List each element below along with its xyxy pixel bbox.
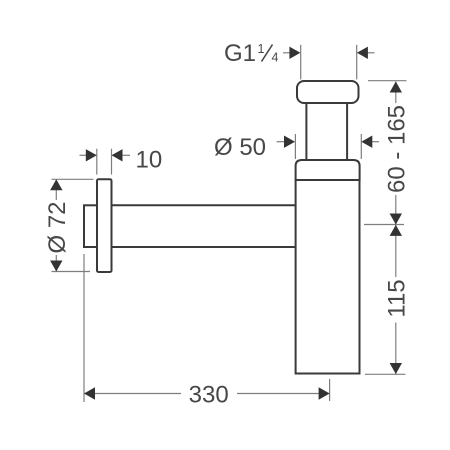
label G1 1/4 — [224, 40, 279, 67]
arrow dia72 bottom — [50, 261, 62, 272]
svg-text:Ø 50: Ø 50 — [214, 134, 266, 161]
svg-text:4: 4 — [272, 51, 279, 65]
arrow 60-165 top — [390, 82, 402, 93]
arrow dia72 top — [50, 179, 62, 190]
svg-text:60 - 165: 60 - 165 — [384, 105, 411, 193]
dim 115 bottom extension line — [365, 373, 406, 375]
pipe wall stub — [84, 205, 97, 247]
arrow dim10 right — [112, 149, 123, 161]
dim 10 leader lines — [80, 154, 131, 156]
wall flange — [97, 179, 112, 272]
svg-text:Ø 72: Ø 72 — [44, 201, 71, 253]
arrow G leader right — [357, 47, 368, 59]
dim 60-165 dimension line — [395, 82, 397, 225]
arrow dia50 right — [361, 136, 372, 148]
dim 330 left extension line — [83, 254, 85, 402]
dia 50 leader lines — [277, 141, 379, 143]
dim 60-165 top extension line — [368, 80, 407, 82]
arrow G leader left — [289, 47, 300, 59]
trap neck — [306, 103, 347, 160]
horizontal pipe — [112, 205, 296, 247]
dia 50 extension lines — [295, 134, 361, 159]
dia 72 dimension line — [55, 180, 57, 272]
body top flange — [296, 160, 360, 180]
dim 330 dimension line — [84, 393, 330, 395]
arrow 115 bottom — [390, 363, 402, 374]
dia 72 extension lines — [52, 179, 94, 271]
G1 1/4 leader lines — [283, 52, 375, 54]
arrow 115 top — [390, 225, 402, 236]
arrow 60-165 bottom — [390, 214, 402, 225]
trap body — [296, 180, 360, 374]
svg-text:115: 115 — [384, 279, 411, 317]
dim 330 right extension line — [329, 379, 331, 401]
svg-text:10: 10 — [136, 146, 163, 173]
arrow 330 left — [84, 387, 95, 399]
shared extension line between 60-165 and 115 — [364, 224, 404, 226]
svg-text:1: 1 — [258, 42, 265, 56]
arrow dim10 left — [86, 149, 97, 161]
dim 10 extension lines — [97, 149, 112, 175]
arrow 330 right — [319, 387, 330, 399]
arrow dia50 left — [284, 136, 295, 148]
dim 115 dimension line — [395, 225, 397, 375]
top flange nut — [297, 81, 359, 103]
svg-text:330: 330 — [189, 382, 229, 409]
svg-text:G1: G1 — [224, 40, 256, 67]
G1 1/4 extension lines — [301, 45, 357, 80]
